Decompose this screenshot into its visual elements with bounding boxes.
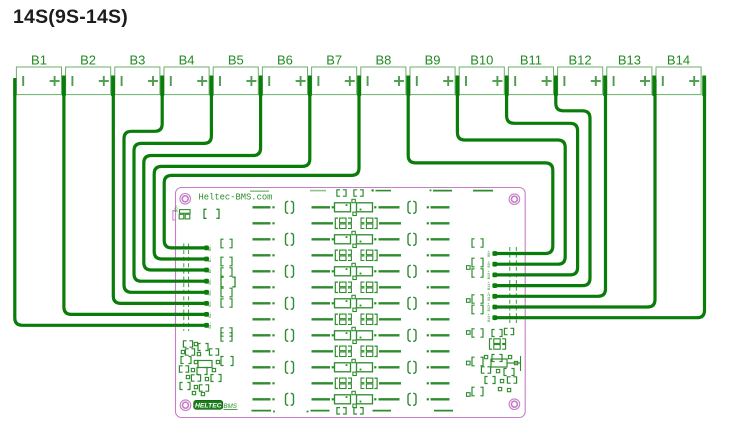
battery cell B14 [656,53,701,95]
battery cell B2 [66,53,111,95]
battery cell B4 [164,53,209,95]
terminal bar B12+/B13- [603,76,607,97]
bracket pair below Heltec text [204,209,207,218]
wire B3+/B4- to pad [124,80,207,292]
svg-text:B9: B9 [425,53,441,68]
balancing row A4 (resistor/cap row) [253,295,450,311]
svg-text:14S(9S-14S): 14S(9S-14S) [13,6,128,28]
balancing row B1 (dual footprint row) [253,218,450,228]
battery cell B12 [558,53,603,95]
balancing row B4 (dual footprint row) [253,314,450,324]
bracket mid cluster [221,357,224,366]
svg-text:B5: B5 [228,53,244,68]
battery cell B7 [312,53,357,95]
left pad labels [209,245,213,329]
silk row bottom C3 [252,408,454,414]
balancing row A2 (resistor/cap row) [253,231,450,247]
balancing row B6 (dual footprint row) [253,378,450,388]
svg-text:B4: B4 [179,53,195,68]
bottom-left component cluster [179,341,221,396]
terminal bar B3+/B4- [160,76,164,97]
svg-text:B8: B8 [375,53,391,68]
svg-text:B1: B1 [31,53,47,68]
svg-text:B1-: B1- [209,322,213,328]
balancing row B3 (dual footprint row) [253,282,450,292]
svg-text:B6: B6 [277,53,293,68]
svg-text:B10: B10 [470,53,493,68]
wire B2+/B3- to pad [113,80,206,303]
terminal bar B2+/B3- [111,76,115,97]
mounting hole top-right [509,194,520,205]
bracket above cluster [221,333,224,341]
wire B12+/B13- to pad [495,80,606,296]
svg-text:B2: B2 [80,53,96,68]
balancing row A3 (resistor/cap row) [253,263,450,279]
svg-text:B9+: B9+ [488,261,492,267]
right dashed silk lines [510,247,517,323]
svg-text:B12: B12 [569,53,592,68]
balancing row A6 (resistor/cap row) [253,359,450,375]
terminal bar B5+/B6- [259,76,263,97]
svg-text:B11: B11 [520,53,542,68]
balancing row A5 (resistor/cap row) [253,327,450,343]
wire B9+/B10- to pad [457,80,565,264]
terminal bar B8+/B9- [406,76,410,97]
battery cell B1 [16,53,61,95]
svg-text:B13+: B13+ [488,303,492,312]
mounting hole bottom-left [180,400,191,411]
wire entry pads [204,246,497,328]
svg-text:HELTEC: HELTEC [195,403,222,410]
battery cell B10 [459,53,504,95]
left dashed silk lines [184,244,189,332]
HELTEC logo box [194,400,223,409]
wire B11+/B12- to pad [495,80,590,286]
svg-text:BMS: BMS [224,403,238,410]
BMS underline [224,408,238,410]
mounting hole bottom-right [509,399,520,410]
svg-text:B7: B7 [326,53,342,68]
wire B10+/B11- to pad [495,80,578,275]
svg-text:Heltec-BMS.com: Heltec-BMS.com [199,193,273,203]
svg-text:B0-: B0- [175,205,179,213]
terminal bar B1- [13,78,16,96]
balancing row B2 (dual footprint row) [253,250,450,260]
right pad labels [488,250,492,322]
terminal bar B10+/B11- [505,76,509,97]
wire B6+/B7- to pad [154,80,310,259]
balancing row A1 (resistor/cap row) [253,199,450,215]
svg-text:B3-: B3- [209,300,213,306]
wire B7+/B8- to pad [164,80,359,248]
svg-text:B10+: B10+ [488,271,492,280]
svg-text:B2-: B2- [209,311,213,317]
wire B1- to pad [15,80,207,325]
svg-text:B12+: B12+ [488,292,492,301]
battery cell B9 [410,53,455,95]
wire B5+/B6- to pad [144,80,261,270]
svg-text:B11+: B11+ [488,281,492,290]
mounting hole top-left [180,194,191,205]
battery cell B5 [213,53,258,95]
wire B1+/B2- to pad [64,80,207,314]
terminal bar B14+ [702,76,706,97]
battery cell B3 [115,53,160,95]
wire B13+/B14- to pad [495,80,655,307]
connector footprint top-left [175,205,190,219]
terminal bar B9+/B10- [456,76,460,97]
terminal bar B7+/B8- [357,76,361,97]
battery cell B13 [607,53,652,95]
svg-text:B14+: B14+ [488,313,492,322]
terminal bar B13+/B14- [652,76,656,97]
svg-text:B13: B13 [618,53,641,68]
svg-text:B14: B14 [667,53,690,68]
balancing row A7 (resistor/cap row) [253,391,450,407]
svg-text:B5-: B5- [209,278,213,284]
wire B8+/B9- to pad [408,80,553,254]
wire B4+/B5- to pad [134,80,211,281]
battery cell B6 [262,53,307,95]
svg-text:B6-: B6- [209,267,213,273]
svg-text:B3: B3 [129,53,145,68]
bottom-right component cluster [481,328,521,391]
right footprint brackets [467,239,484,397]
terminal bar B4+/B5- [210,76,214,97]
svg-text:B8+: B8+ [488,250,492,256]
wire B14+ to pad [495,80,705,318]
svg-text:B4-: B4- [209,289,213,295]
balancing row B5 (dual footprint row) [253,346,450,356]
left edge notch [173,211,176,221]
PCB outline [176,188,526,418]
battery cell B11 [508,53,553,95]
svg-text:B8-: B8- [209,245,213,251]
terminal bar B1+/B2- [62,76,66,97]
battery cell B8 [361,53,406,95]
terminal bar B11+/B12- [554,76,558,97]
silk row top C3 [250,189,493,196]
svg-text:B7-: B7- [209,256,213,262]
terminal bar B6+/B7- [308,76,312,97]
left footprint brackets [221,239,235,336]
